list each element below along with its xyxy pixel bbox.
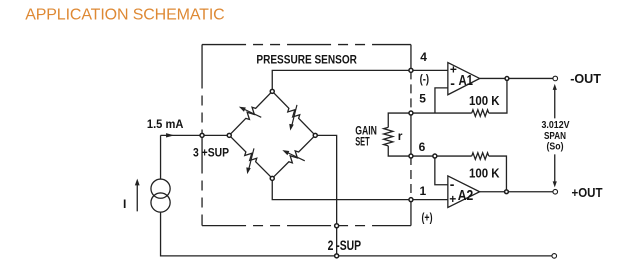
pressure sensor outline right edge pin6-pin1 (dashed)	[410, 156, 412, 200]
node box edge +SUP	[200, 133, 204, 137]
op-amp A2	[448, 176, 480, 208]
op-amp A1	[448, 63, 480, 95]
svg-text:-: -	[450, 75, 455, 91]
svg-text:A2: A2	[458, 187, 474, 204]
resistor r (gain set)	[384, 127, 393, 146]
svg-text:(+): (+)	[422, 211, 433, 225]
bridge strain gauge RB3 (lower left arm)	[229, 135, 272, 178]
svg-text:APPLICATION SCHEMATIC: APPLICATION SCHEMATIC	[25, 7, 225, 24]
svg-text:2 -SUP: 2 -SUP	[328, 237, 362, 253]
node pin 6	[409, 154, 413, 158]
span arrow upper shaft	[554, 87, 556, 119]
svg-text:PRESSURE SENSOR: PRESSURE SENSOR	[256, 53, 357, 67]
svg-text:A1: A1	[459, 72, 474, 89]
svg-text:I: I	[123, 197, 126, 211]
svg-text:-: -	[450, 176, 455, 192]
bridge strain gauge RB2 (upper right arm)	[272, 91, 315, 135]
svg-text:100 K: 100 K	[469, 93, 500, 108]
resistor 100K (A1 feedback)	[472, 110, 489, 117]
node pin 2 on outline	[335, 224, 339, 228]
svg-text:4: 4	[420, 50, 427, 64]
wire gain-set resistor r to pin6	[388, 146, 411, 156]
wire A1 output to -OUT terminal	[480, 77, 553, 79]
svg-text:r: r	[398, 129, 403, 143]
wire 100K to A1 output node	[489, 78, 507, 113]
arrowhead current feed	[166, 133, 174, 137]
svg-text:100 K: 100 K	[469, 165, 500, 180]
pressure sensor outline right edge segment above pin 4	[410, 45, 412, 71]
wire pin5 to gain-set resistor r	[388, 113, 411, 127]
terminal -OUT	[553, 76, 558, 81]
bridge strain gauge RB1 (upper left arm)	[229, 91, 272, 135]
svg-text:6: 6	[419, 140, 426, 154]
node A2 feedback junction	[433, 154, 437, 158]
svg-text:SET: SET	[355, 135, 370, 149]
svg-text:5: 5	[419, 91, 426, 105]
arrowhead span lower	[553, 181, 557, 187]
svg-text:(-): (-)	[420, 72, 430, 86]
wire A1 inverting input drop	[435, 88, 448, 113]
arrowhead span upper	[553, 84, 557, 90]
wire A2 output to +OUT terminal	[480, 191, 553, 193]
gauge arrow RB1	[244, 109, 261, 117]
pressure sensor outline bottom edge (phantom dashed)	[202, 225, 411, 227]
wire pin5 row to 100K resistor A1	[411, 112, 472, 114]
resistor 100K (A2 feedback)	[472, 153, 489, 160]
wire pin5 to pin6 internal (right edge solid)	[410, 113, 412, 156]
pressure sensor outline right edge pin1-bottom (dashed)	[410, 200, 412, 226]
svg-text:-OUT: -OUT	[570, 71, 601, 86]
svg-text:(So): (So)	[547, 141, 564, 153]
wire current source feed (+SUP row)	[161, 134, 230, 136]
node pin 1	[409, 198, 413, 202]
wire current source top lead	[160, 135, 162, 179]
arrowhead current I	[135, 179, 140, 186]
svg-text:1: 1	[420, 184, 427, 198]
wire current source bottom lead to -SUP rail	[161, 212, 555, 256]
svg-text:+OUT: +OUT	[572, 185, 603, 200]
svg-text:3 +SUP: 3 +SUP	[193, 145, 229, 159]
current source I circle bottom	[151, 193, 170, 212]
terminal -SUP rail end	[552, 254, 557, 259]
svg-text:+: +	[449, 192, 456, 206]
wire A2 inverting input drop	[435, 156, 448, 185]
gauge arrow RB3	[249, 148, 254, 169]
terminal +OUT	[553, 189, 558, 194]
wire 100K to A2 output node	[489, 156, 507, 192]
pressure sensor outline top edge (phantom dashed)	[202, 44, 411, 46]
node bridge top	[270, 89, 274, 93]
current source I circle top	[151, 179, 170, 198]
node bridge left	[227, 133, 231, 137]
current arrow I shaft	[136, 184, 138, 211]
svg-text:1.5 mA: 1.5 mA	[147, 117, 184, 131]
gauge arrow RB4	[288, 153, 305, 161]
node A2 output junction	[505, 190, 509, 194]
node -SUP rail junction	[335, 254, 339, 258]
span arrow lower shaft	[554, 154, 556, 184]
wire bridge bottom node to A2 plus input (pin 1)	[272, 178, 448, 199]
node bridge bottom	[270, 176, 274, 180]
node A1 output junction	[505, 77, 509, 81]
wire bridge right node to -SUP rail (pin 2)	[315, 135, 336, 256]
bridge strain gauge RB4 (lower right arm)	[272, 135, 315, 178]
pressure sensor outline right edge pin4-pin5 (dashed)	[410, 70, 412, 113]
node pin 5	[409, 111, 413, 115]
gauge arrow RB2	[292, 105, 297, 126]
wire pin6 row to 100K resistor A2	[411, 155, 472, 157]
pressure sensor outline left edge (phantom dashed)	[201, 45, 203, 226]
wire bridge top node to A1 plus input (pin 4)	[272, 70, 448, 91]
node bridge right	[313, 133, 317, 137]
node pin 4	[409, 68, 413, 72]
